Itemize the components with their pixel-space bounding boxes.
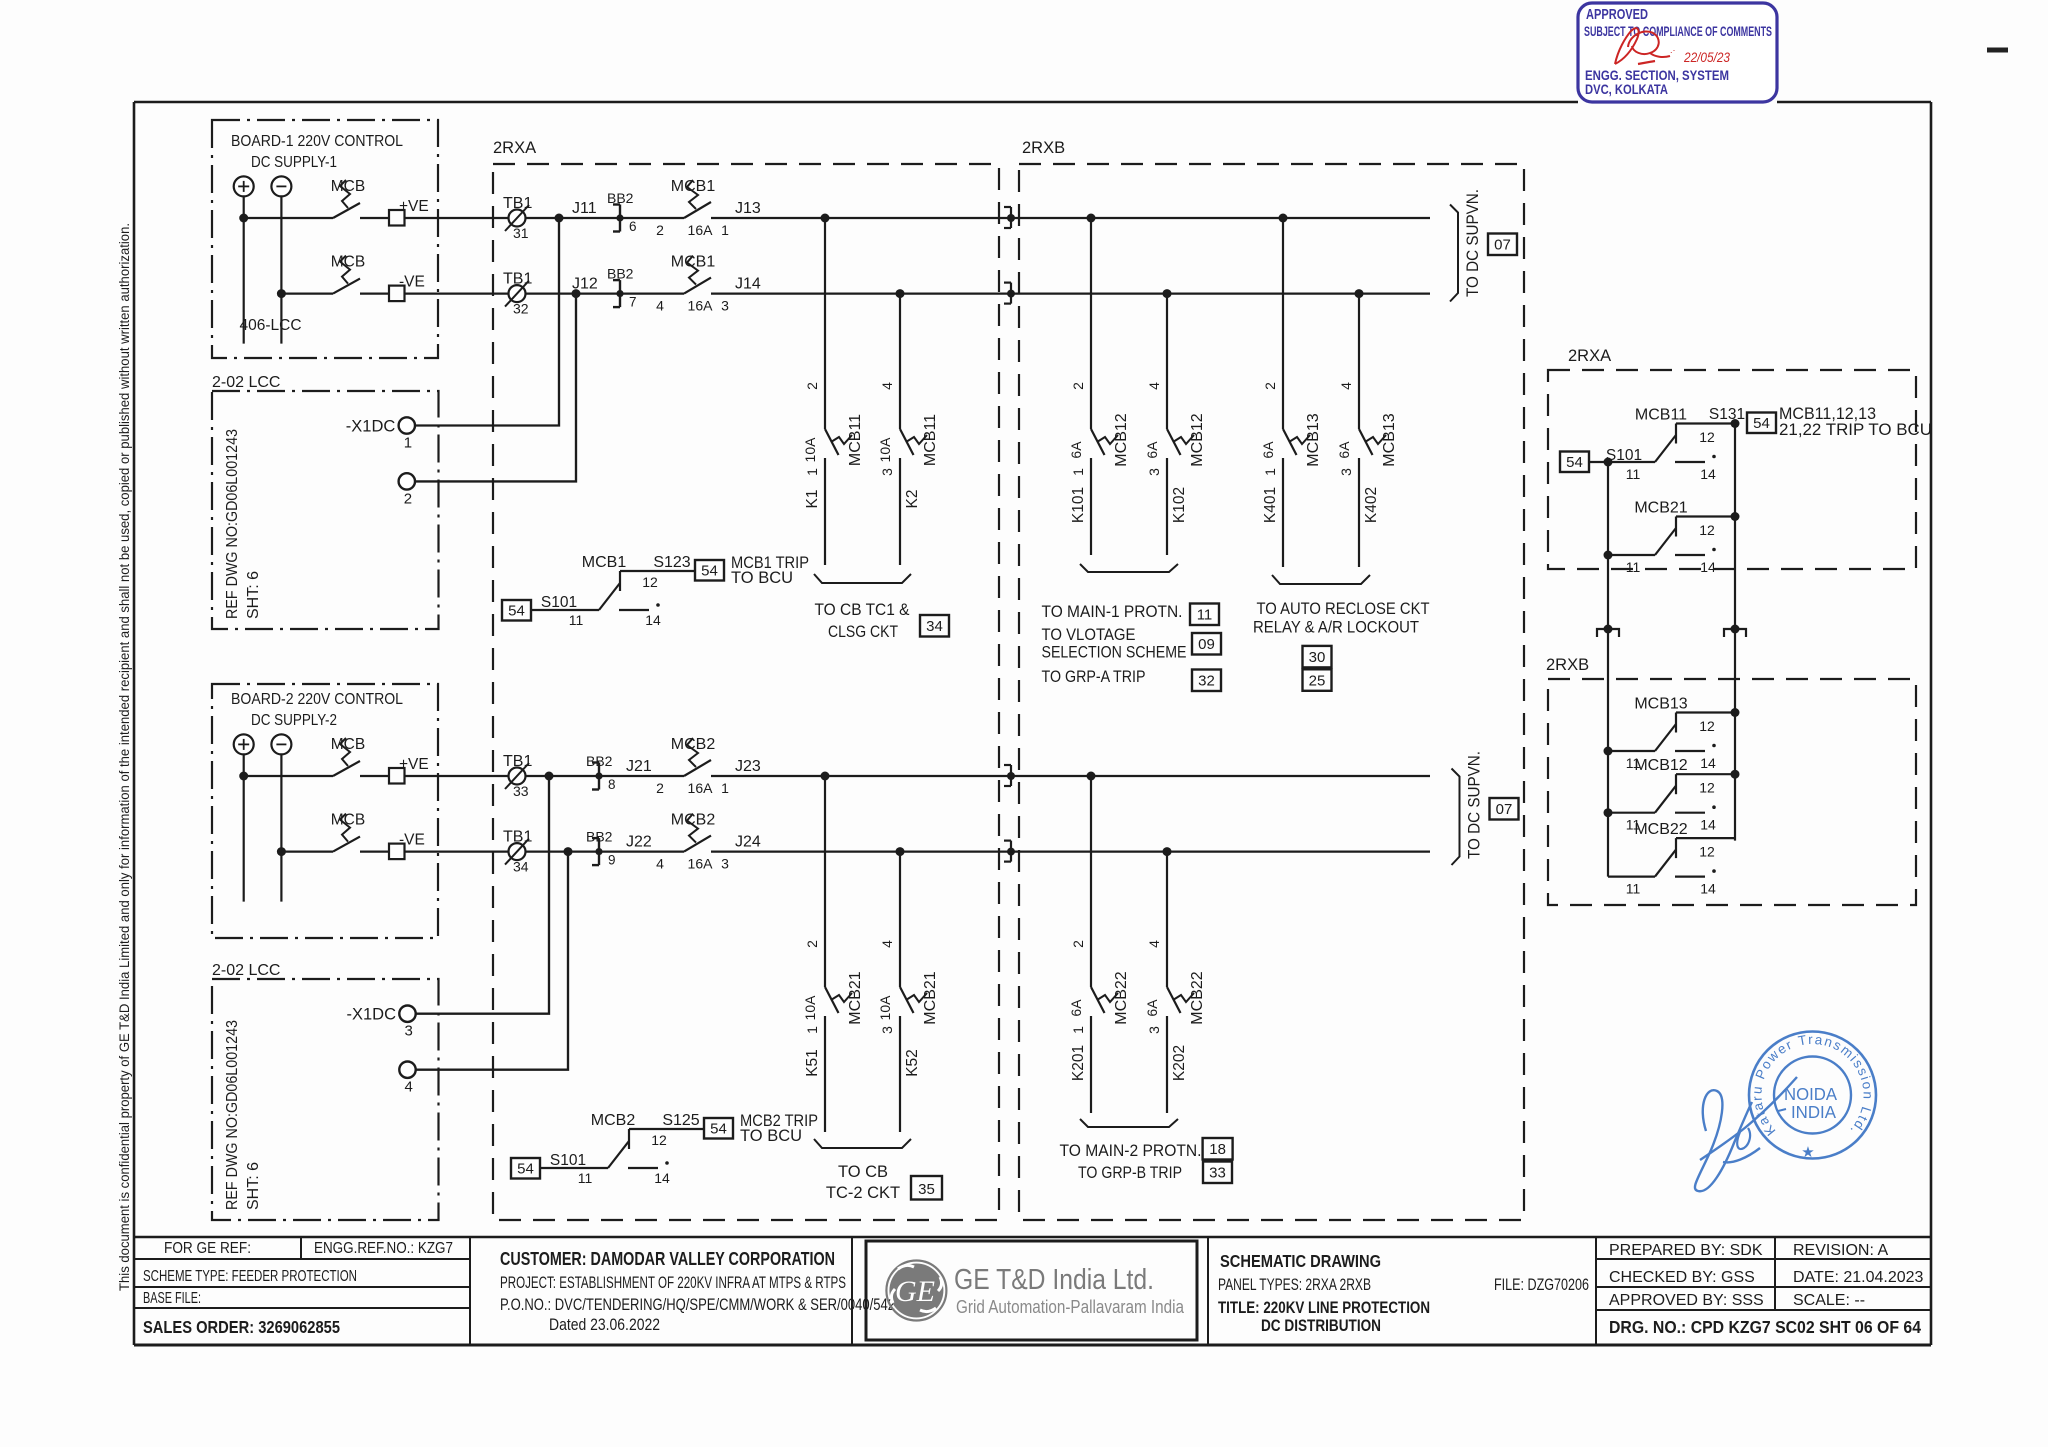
feeder drop K52 wire upper	[899, 852, 901, 987]
svg-text:18: 18	[1209, 1141, 1226, 1158]
stamp red signature	[1615, 28, 1670, 64]
svg-text:1: 1	[1070, 1026, 1086, 1034]
svg-text:MCB21: MCB21	[847, 971, 864, 1024]
svg-text:6A: 6A	[1336, 441, 1352, 459]
svg-text:14: 14	[1700, 881, 1716, 897]
wire contact 12 to 54 box (S125)	[629, 1128, 704, 1130]
svg-text:10A: 10A	[877, 995, 893, 1021]
sheet reference box 11	[1190, 604, 1219, 626]
wire MCB to -VE link box	[360, 293, 389, 295]
circuit breaker MCB22 (K201) contact	[1091, 987, 1105, 1013]
contact 14 stub	[619, 609, 649, 611]
sheet reference box 18	[1203, 1138, 1233, 1160]
svg-text:12: 12	[1699, 429, 1715, 445]
feeder drop K201 wire lower	[1090, 1016, 1092, 1113]
left riser wire (S101 chain)	[1607, 462, 1609, 877]
junction + bus	[239, 772, 248, 781]
svg-text:4: 4	[1146, 940, 1162, 948]
svg-text:14: 14	[654, 1170, 670, 1186]
svg-text:SCHEMATIC DRAWING: SCHEMATIC DRAWING	[1220, 1251, 1381, 1271]
terminal TB1-34	[509, 843, 526, 860]
svg-text:BOARD-1 220V CONTROL: BOARD-1 220V CONTROL	[231, 133, 403, 150]
svg-text:TO GRP-B TRIP: TO GRP-B TRIP	[1078, 1164, 1182, 1182]
svg-text:33: 33	[513, 783, 529, 799]
svg-text:9: 9	[608, 853, 616, 868]
wire - to MCB	[281, 293, 333, 295]
svg-text:MCB: MCB	[331, 736, 365, 753]
circuit breaker MCB1 contact	[684, 278, 711, 294]
svg-text:54: 54	[1753, 415, 1770, 432]
sheet reference box 30	[1303, 646, 1332, 668]
svg-text:K1: K1	[804, 490, 821, 509]
svg-text:DVC, KOLKATA: DVC, KOLKATA	[1585, 81, 1668, 97]
sheet reference box 07	[1490, 798, 1519, 820]
svg-text:S125: S125	[662, 1112, 699, 1129]
circuit breaker MCB12 (K101) contact	[1091, 429, 1105, 455]
svg-text:MCB: MCB	[331, 254, 365, 271]
terminal TB1-32	[509, 285, 526, 302]
feeder drop K101 wire upper	[1090, 218, 1092, 429]
drawing border frame	[134, 101, 1578, 104]
svg-text:2: 2	[656, 222, 664, 238]
wire from - terminal down	[280, 754, 282, 901]
round stamp signature	[1695, 1090, 1752, 1191]
wire MCB to +VE link box	[360, 775, 389, 777]
group brace	[1080, 564, 1178, 572]
sheet reference box 35	[911, 1176, 942, 1200]
svg-text:ENGG.REF.NO.: KZG7: ENGG.REF.NO.: KZG7	[314, 1240, 453, 1257]
bus wire J11/J13 at y=218	[711, 217, 1430, 219]
junction on J23 at x=825	[821, 772, 830, 781]
wire from - terminal down	[280, 196, 282, 343]
svg-text:07: 07	[1496, 801, 1513, 818]
svg-text:14: 14	[645, 612, 661, 628]
svg-text:TO DC SUPVN.: TO DC SUPVN.	[1465, 751, 1484, 859]
contact 14 stub	[1675, 750, 1705, 752]
junction - bus	[277, 289, 286, 298]
svg-text:MCB12: MCB12	[1113, 413, 1130, 466]
junction on J13 at x=1091	[1087, 214, 1096, 223]
-VE link square	[389, 844, 405, 860]
svg-text:07: 07	[1494, 237, 1511, 254]
svg-text:25: 25	[1309, 672, 1326, 689]
svg-text:11: 11	[1197, 607, 1213, 624]
svg-text:INDIA: INDIA	[1791, 1102, 1836, 1122]
svg-text:2: 2	[1262, 382, 1278, 390]
junction on J23 at x=549	[545, 772, 554, 781]
wire -VE to TB1	[405, 293, 685, 295]
title block verticals	[469, 1237, 471, 1345]
svg-text:S101: S101	[550, 1152, 586, 1169]
circuit breaker MCB13 (K401) contact	[1283, 429, 1297, 455]
svg-text:4: 4	[879, 382, 895, 390]
svg-text:14: 14	[1700, 817, 1716, 833]
terminal -X1DC pin 2	[399, 473, 415, 489]
svg-text:21,22 TRIP TO BCU: 21,22 TRIP TO BCU	[1779, 421, 1932, 439]
wire J12 to -X1DC terminal 2	[415, 294, 576, 482]
svg-text:APPROVED: APPROVED	[1586, 6, 1648, 23]
feeder drop K402 wire upper	[1358, 294, 1360, 429]
circuit breaker MCB2 contact	[684, 836, 711, 852]
junction on J13 at x=1283	[1279, 214, 1288, 223]
sheet reference box 25	[1303, 669, 1332, 691]
svg-text:DRG. NO.: CPD KZG7 SC02 SHT 0: DRG. NO.: CPD KZG7 SC02 SHT 06 OF 64	[1609, 1317, 1921, 1337]
+VE link square	[389, 768, 405, 784]
svg-text:DC DISTRIBUTION: DC DISTRIBUTION	[1261, 1316, 1381, 1335]
svg-text:3: 3	[721, 298, 729, 314]
wire 54 to S101 node	[1589, 461, 1608, 463]
feeder drop K2 wire upper	[899, 294, 901, 429]
wire from + terminal down	[243, 196, 245, 343]
terminal -X1DC pin 3	[399, 1006, 415, 1022]
feeder drop K102 wire lower	[1166, 458, 1168, 555]
feeder drop K102 wire upper	[1166, 294, 1168, 429]
svg-text:33: 33	[1209, 1165, 1226, 1182]
feeder drop K401 wire lower	[1282, 458, 1284, 567]
GE monogram circle	[886, 1261, 946, 1321]
panel boundary splice	[1004, 206, 1011, 208]
svg-text:SCALE: --: SCALE: --	[1793, 1292, 1865, 1309]
svg-text:S101: S101	[541, 594, 577, 611]
circuit breaker MCB12 (K102) contact	[1167, 429, 1181, 455]
svg-text:MCB2: MCB2	[671, 736, 716, 753]
junction - bus	[277, 847, 286, 856]
svg-text:J24: J24	[735, 834, 761, 851]
svg-text:TC-2 CKT: TC-2 CKT	[826, 1184, 900, 1202]
svg-text:TO CB: TO CB	[838, 1163, 888, 1181]
feeder drop K1 wire upper	[824, 218, 826, 429]
title block row lines right	[1596, 1258, 1931, 1260]
circuit breaker MCB21 (K52) contact	[900, 987, 914, 1013]
svg-text:DC SUPPLY-1: DC SUPPLY-1	[251, 154, 337, 171]
sheet ref box 54	[1747, 413, 1776, 434]
approval stamp box	[1578, 3, 1777, 102]
circuit breaker MCB2 contact	[684, 760, 711, 776]
svg-text:12: 12	[1699, 780, 1715, 796]
svg-text:30: 30	[1309, 649, 1326, 666]
feeder drop K52 wire lower	[899, 1016, 901, 1132]
svg-text:2RXB: 2RXB	[1546, 656, 1589, 674]
svg-text:54: 54	[517, 1161, 534, 1178]
sheet reference box 32	[1192, 670, 1221, 692]
feeder drop K51 wire upper	[824, 776, 826, 987]
svg-text:12: 12	[642, 574, 658, 590]
svg-text:12: 12	[1699, 844, 1715, 860]
svg-text:MCB22: MCB22	[1634, 821, 1687, 838]
svg-text:32: 32	[1198, 673, 1215, 690]
svg-text:TO DC SUPVN.: TO DC SUPVN.	[1463, 189, 1482, 297]
panel boundary splice	[1004, 764, 1011, 766]
group brace	[814, 1139, 911, 1148]
svg-text:32: 32	[513, 301, 529, 317]
group brace	[1080, 1119, 1178, 1127]
svg-text:1: 1	[1070, 468, 1086, 476]
svg-text:1: 1	[1262, 468, 1278, 476]
svg-text:MCB12: MCB12	[1634, 757, 1687, 774]
svg-text:31: 31	[513, 225, 529, 241]
group brace	[814, 574, 911, 583]
svg-text:16A: 16A	[688, 856, 714, 872]
svg-text:SHT: 6: SHT: 6	[245, 1162, 262, 1210]
svg-text:2: 2	[404, 490, 412, 507]
terminal BB2 pin 6	[619, 205, 621, 232]
svg-text:MCB11: MCB11	[922, 414, 939, 466]
svg-text:BASE FILE:: BASE FILE:	[143, 1290, 201, 1307]
svg-text:K2: K2	[904, 490, 921, 509]
wire +VE to TB1	[405, 217, 685, 219]
junction on J23 at x=1091	[1087, 772, 1096, 781]
svg-text:12: 12	[1699, 522, 1715, 538]
svg-text:14: 14	[1700, 466, 1716, 482]
wire + to MCB	[244, 217, 333, 219]
wire MCB to +VE link box	[360, 217, 389, 219]
svg-text:K52: K52	[904, 1049, 921, 1077]
svg-text:TO VLOTAGE: TO VLOTAGE	[1042, 626, 1136, 644]
svg-text:10A: 10A	[877, 437, 893, 463]
svg-text:34: 34	[926, 618, 943, 635]
wire 54 to S125 contact	[540, 1167, 608, 1169]
svg-text:MCB1: MCB1	[582, 554, 627, 571]
svg-text:BB2: BB2	[607, 266, 634, 282]
circuit breaker MCB21 (K51) contact	[825, 987, 839, 1013]
svg-text:Dated 23.06.2022: Dated 23.06.2022	[549, 1316, 660, 1334]
riser splice marker	[1597, 629, 1619, 637]
svg-text:54: 54	[701, 563, 718, 580]
circuit breaker MCB11 (K2) contact	[900, 429, 914, 455]
bus wire J21/J23 at y=776	[711, 775, 1430, 777]
svg-text:6A: 6A	[1068, 441, 1084, 459]
svg-text:8: 8	[608, 777, 616, 792]
feeder drop K201 wire upper	[1090, 776, 1092, 987]
feeder drop K202 wire lower	[1166, 1016, 1168, 1113]
bus wire J22/J24 at y=851.6	[711, 850, 1430, 852]
svg-text:REVISION: A: REVISION: A	[1793, 1242, 1888, 1259]
svg-text:J22: J22	[626, 834, 652, 851]
MCB switch on + supply	[333, 203, 360, 218]
junction on J24 at x=568	[564, 847, 573, 856]
feeder drop K401 wire upper	[1282, 218, 1284, 429]
aux contact MCB11	[1604, 458, 1613, 467]
right riser wire (trip chain)	[1734, 423, 1736, 841]
svg-text:6: 6	[629, 219, 637, 234]
svg-text:1: 1	[721, 780, 729, 796]
GE logo cell inner box	[866, 1241, 1197, 1340]
aux contact MCB21	[1604, 551, 1613, 560]
wire J11 to -X1DC terminal 1	[415, 218, 559, 426]
svg-text:2-02 LCC: 2-02 LCC	[212, 374, 280, 391]
group brace	[1272, 575, 1370, 584]
feeder drop K2 wire lower	[899, 458, 901, 565]
aux switch S101/MCB2 blade	[608, 1141, 629, 1168]
svg-text:2RXA: 2RXA	[493, 139, 536, 157]
aux contact MCB12	[1604, 808, 1613, 817]
svg-text:MCB2: MCB2	[671, 812, 716, 829]
svg-text:REF DWG NO:GD06L001243: REF DWG NO:GD06L001243	[224, 1020, 241, 1210]
panel boundary splice	[1004, 839, 1011, 841]
svg-text:-VE: -VE	[399, 832, 425, 849]
svg-text:+VE: +VE	[399, 756, 429, 773]
terminal BB2 pin 8	[598, 763, 600, 790]
junction on J13 at x=825	[821, 214, 830, 223]
svg-text:7: 7	[629, 295, 637, 310]
svg-text:SUBJECT TO COMPLIANCE OF COMME: SUBJECT TO COMPLIANCE OF COMMENTS	[1584, 23, 1772, 39]
svg-text:09: 09	[1198, 636, 1215, 653]
svg-text:J14: J14	[735, 276, 761, 293]
svg-text:MCB1: MCB1	[671, 178, 716, 195]
svg-text:1: 1	[804, 468, 820, 476]
feeder drop K202 wire upper	[1166, 852, 1168, 987]
svg-text:4: 4	[1146, 382, 1162, 390]
svg-text:14: 14	[1700, 559, 1716, 575]
svg-text:54: 54	[508, 603, 525, 620]
contact 14 stub	[1675, 461, 1705, 463]
circuit breaker MCB13 (K402) contact	[1359, 429, 1373, 455]
stray mark top right	[1987, 48, 2008, 53]
svg-text:MCB21: MCB21	[922, 971, 939, 1024]
svg-text:2: 2	[804, 940, 820, 948]
svg-text:MCB21: MCB21	[1634, 500, 1687, 517]
svg-text:3: 3	[1338, 468, 1354, 476]
feeder drop K51 wire lower	[824, 1016, 826, 1132]
svg-text:APPROVED BY: SSS: APPROVED BY: SSS	[1609, 1292, 1764, 1309]
title block row lines left	[134, 1258, 470, 1260]
svg-text:TO MAIN-1 PROTN.: TO MAIN-1 PROTN.	[1042, 603, 1183, 621]
sheet ref box 54	[1560, 452, 1589, 473]
circuit breaker MCB11 (K1) contact	[825, 429, 839, 455]
svg-text:16A: 16A	[688, 298, 714, 314]
svg-text:11: 11	[578, 1170, 593, 1186]
svg-text:2-02 LCC: 2-02 LCC	[212, 962, 280, 979]
circuit breaker MCB1 contact	[684, 202, 711, 218]
svg-text:SCHEME TYPE: FEEDER PROTECTION: SCHEME TYPE: FEEDER PROTECTION	[143, 1268, 357, 1285]
svg-text:MCB13: MCB13	[1381, 413, 1398, 466]
svg-text:-VE: -VE	[399, 274, 425, 291]
svg-text:2RXA: 2RXA	[1568, 347, 1611, 365]
svg-text:2: 2	[804, 382, 820, 390]
svg-text:J11: J11	[572, 200, 597, 217]
svg-text:DATE: 21.04.2023: DATE: 21.04.2023	[1793, 1269, 1924, 1286]
svg-text:GE T&D India Ltd.: GE T&D India Ltd.	[954, 1264, 1154, 1296]
terminal -X1DC pin 4	[399, 1062, 415, 1078]
aux contact MCB13	[1604, 747, 1613, 756]
svg-text:TO MAIN-2 PROTN.: TO MAIN-2 PROTN.	[1060, 1142, 1202, 1160]
terminal TB1-33	[509, 768, 526, 785]
svg-text:35: 35	[918, 1181, 935, 1198]
svg-text:TB1: TB1	[503, 829, 532, 846]
svg-text:TO BCU: TO BCU	[731, 569, 793, 587]
wire J21 to -X1DC terminal 3	[416, 776, 550, 1014]
svg-text:K401: K401	[1262, 487, 1279, 523]
svg-text:K101: K101	[1070, 487, 1087, 523]
svg-text:BB2: BB2	[607, 190, 634, 206]
bracket to DC supervision	[1452, 769, 1460, 866]
svg-text:PROJECT: ESTABLISHMENT OF 220K: PROJECT: ESTABLISHMENT OF 220KV INFRA AT…	[500, 1274, 846, 1292]
svg-text:TO GRP-A TRIP: TO GRP-A TRIP	[1042, 668, 1146, 686]
sheet reference box 33	[1203, 1162, 1232, 1184]
svg-text:MCB13: MCB13	[1305, 413, 1322, 466]
svg-text:6A: 6A	[1144, 999, 1160, 1017]
svg-text:MCB11: MCB11	[1635, 407, 1687, 424]
svg-text:MCB: MCB	[331, 178, 365, 195]
svg-text:RELAY & A/R LOCKOUT: RELAY & A/R LOCKOUT	[1253, 619, 1419, 637]
wire + to MCB	[244, 775, 333, 777]
svg-text:.·: .·	[1670, 45, 1676, 55]
MCB switch on - supply	[333, 837, 360, 852]
svg-text:CLSG CKT: CLSG CKT	[828, 623, 898, 641]
junction on J13 at x=559	[555, 214, 564, 223]
svg-text:This document is confidential: This document is confidential property o…	[117, 223, 132, 1291]
svg-text:S123: S123	[653, 554, 690, 571]
bus wire J12/J14 at y=293.6	[711, 293, 1430, 295]
svg-text:TB1: TB1	[503, 271, 532, 288]
svg-text:4: 4	[1338, 382, 1354, 390]
svg-text:NOIDA: NOIDA	[1784, 1084, 1837, 1104]
svg-text:4: 4	[879, 940, 895, 948]
svg-text:K51: K51	[804, 1049, 821, 1077]
sheet reference box 34	[920, 615, 949, 637]
svg-text:TO AUTO RECLOSE CKT: TO AUTO RECLOSE CKT	[1257, 600, 1430, 618]
sheet ref box 54	[704, 1118, 733, 1139]
terminal -X1DC pin 1	[399, 417, 415, 433]
svg-text:3: 3	[405, 1023, 413, 1040]
feeder drop K402 wire lower	[1358, 458, 1360, 567]
circuit breaker MCB22 (K202) contact	[1167, 987, 1181, 1013]
svg-text:FILE: DZG70206: FILE: DZG70206	[1494, 1276, 1589, 1294]
wire 54 to S123 contact	[531, 609, 599, 611]
svg-text:1: 1	[404, 435, 412, 452]
BOARD-2 220V CONTROL DC SUPPLY-2 enclosure box	[212, 684, 438, 938]
svg-text:S131: S131	[1709, 406, 1745, 423]
svg-text:22/05/23: 22/05/23	[1683, 49, 1730, 65]
round stamp inner circle	[1774, 1057, 1851, 1134]
svg-text:CUSTOMER: DAMODAR VALLEY CORP: CUSTOMER: DAMODAR VALLEY CORPORATION	[500, 1249, 835, 1269]
wire J22 to -X1DC terminal 4	[416, 852, 569, 1070]
svg-text:3: 3	[1146, 1026, 1162, 1034]
svg-text:MCB2: MCB2	[591, 1112, 636, 1129]
svg-text:BB2: BB2	[586, 829, 613, 845]
svg-text:11: 11	[1626, 466, 1641, 482]
wire MCB to -VE link box	[360, 850, 389, 852]
svg-text:11: 11	[569, 612, 584, 628]
svg-text:TO CB TC1 &: TO CB TC1 &	[815, 601, 910, 619]
feeder drop K101 wire lower	[1090, 458, 1092, 555]
svg-text:MCB12: MCB12	[1189, 413, 1206, 466]
svg-text:FOR GE REF:: FOR GE REF:	[164, 1240, 251, 1257]
svg-text:3: 3	[721, 856, 729, 872]
panel boundary splice	[1004, 282, 1011, 284]
sheet ref box 54	[502, 600, 531, 621]
svg-text:4: 4	[656, 856, 664, 872]
MCB switch on + supply	[333, 761, 360, 776]
-VE link square	[389, 286, 405, 302]
svg-text:MCB22: MCB22	[1113, 971, 1130, 1024]
title block top border	[134, 1236, 1931, 1239]
svg-text:54: 54	[1566, 454, 1583, 471]
svg-text:6A: 6A	[1260, 441, 1276, 459]
aux contact MCB22	[1608, 875, 1655, 877]
junction on J14 at x=900	[896, 289, 905, 298]
svg-text:K201: K201	[1070, 1045, 1087, 1081]
round stamp outer circle	[1749, 1032, 1876, 1159]
contact 14 stub	[1675, 812, 1705, 814]
battery positive terminal (+) at y744	[234, 734, 254, 754]
terminal BB2 pin 7	[619, 280, 621, 307]
wire +VE to TB1	[405, 775, 685, 777]
wire - to MCB	[281, 850, 333, 852]
battery negative terminal (-)	[271, 176, 291, 196]
svg-text:4: 4	[405, 1079, 413, 1096]
svg-text:1: 1	[721, 222, 729, 238]
